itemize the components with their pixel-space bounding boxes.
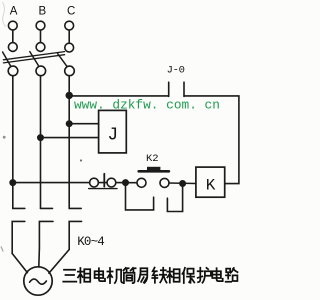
scan artifact fleck lower-left [1,247,3,252]
junction dot A rail [10,180,15,185]
contact J-0 left stub [168,82,170,96]
self-hold contact K right branch [167,184,182,212]
junction dot K input [180,181,185,186]
svg-text:K2: K2 [146,153,159,165]
main contact K pole A lower [12,221,25,253]
knife switch blade pole B [30,52,39,66]
switch lower terminal circle A [8,66,18,76]
stop button K1 right circle [107,178,116,187]
contact J-0 right stub [183,82,185,96]
main contact K pole B upper [41,207,53,209]
scan artifact fleck mid-left [3,136,6,139]
fuse FU-B terminal circles [36,21,45,30]
glyph yi [138,268,147,283]
start button K2 bridge bar [139,170,169,173]
motor M circle [24,267,52,295]
stop button K1 bar [103,174,105,187]
scan artifact speck near rail [80,159,82,161]
stop button K1 left circle [90,178,99,187]
glyph dian [95,268,105,281]
junction dot rail mid [123,180,128,185]
node C to J-0 wire [69,95,169,97]
main contact K pole A upper [13,207,25,209]
glyph que [152,268,166,283]
switch lower terminal circle C [65,66,75,76]
svg-text:K: K [206,177,216,195]
main contact K pole C upper [69,207,81,209]
wire phase C vertical [68,76,70,209]
contactor coil K box [196,167,225,197]
svg-text:J-0: J-0 [167,65,185,77]
main contact K pole B lower [39,221,53,248]
glyph bao [182,268,194,283]
knife switch linkage bar lower [3,55,64,63]
relay coil J box [99,110,127,152]
svg-text:C: C [67,5,75,17]
glyph ji [107,268,122,283]
svg-text:K0~4: K0~4 [77,235,104,249]
svg-text:J: J [107,126,118,146]
svg-text:www. dzkfw. com. cn: www. dzkfw. com. cn [74,97,220,112]
stop button K1 underline [89,188,117,190]
wire between K1 circles [98,182,107,184]
glyph xiang [78,268,90,283]
main contact K pole C lower [69,221,81,249]
wire control rail left [13,182,90,184]
svg-text:B: B [38,5,46,17]
glyph hu [198,268,212,283]
fuse FU-C terminal circles [65,21,74,30]
scan artifact top-left curl [3,2,6,27]
start button K2 cap [147,167,160,170]
knife switch blade pole A [3,52,11,66]
knife switch linkage bar upper [3,52,64,60]
motor AC tilde [30,279,47,284]
glyph san [63,270,76,282]
wire C to motor [49,250,69,274]
wire phase A vertical [12,76,14,209]
wire B to relay J lower terminal [41,137,99,139]
wire K1 to K2 [116,182,137,184]
glyph jian [123,268,135,283]
start button K2 left circle [137,178,146,187]
self-hold contact K left branch [126,183,154,210]
start button K2 right circle [160,178,169,187]
glyph xiang2 [167,268,179,283]
wire B to motor [38,248,41,267]
knife switch blade pole C [58,54,67,67]
fuse FU-A terminal circles [8,21,17,30]
glyph dian2 [212,268,222,281]
switch lower terminal circle B [36,66,46,76]
caption 三相电机简易缺相保护电路 [63,268,237,283]
wire C to relay J upper terminal [69,123,98,125]
junction dot C lower [67,121,72,126]
wire phase B vertical [40,76,42,209]
wire J-0 to right edge [184,96,239,184]
wire A to motor [12,254,27,273]
wire K2 to K coil [169,182,196,185]
junction dot C upper [66,93,72,99]
svg-text:A: A [10,5,18,17]
junction dot B [38,135,43,140]
glyph lu [226,268,238,282]
